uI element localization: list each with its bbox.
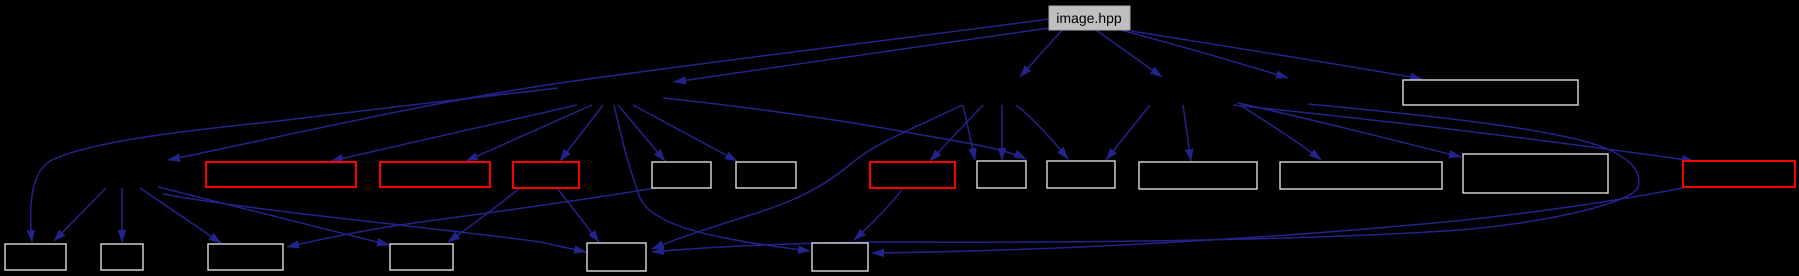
edge C->W4 <box>1016 105 1068 159</box>
edge D->W7 <box>1238 103 1461 157</box>
node W5 <box>1139 162 1257 189</box>
node W1 <box>652 162 711 188</box>
edge D->W6 <box>1240 105 1321 160</box>
edge C->W3 vertical <box>1001 105 1003 160</box>
edge D->W4 <box>1106 105 1150 160</box>
edge A->W3 (long right line) <box>663 98 1026 159</box>
edge B->B3 <box>140 188 221 243</box>
node B5 <box>587 243 646 271</box>
edge B->B4 <box>158 187 389 245</box>
edge image.hpp->E (hidden) <box>1121 30 1288 78</box>
edge W1->B3 <box>287 188 655 247</box>
edge A->B6 (vertical curve) <box>614 105 810 251</box>
node R4 (red) <box>870 162 955 188</box>
node B4 <box>390 244 453 270</box>
node R3 (red) <box>513 162 579 188</box>
edge image.hpp->W8 <box>1131 31 1422 79</box>
edge C->R4 <box>930 105 983 161</box>
edge A->R2 <box>466 105 592 161</box>
node B1 <box>5 244 66 270</box>
edge A->W2 <box>633 105 737 161</box>
edge image.hpp->A (hidden hub center) <box>674 28 1049 82</box>
edge R5->B6 (bottom sweep) <box>872 188 1683 253</box>
node W7 (tall) <box>1463 154 1608 193</box>
edge C->W3 left <box>963 105 975 160</box>
edge R3->B4 <box>448 188 520 242</box>
node W4 <box>1047 161 1115 188</box>
edge A->W1 <box>618 105 665 161</box>
node R2 (red) <box>380 162 490 187</box>
edge R4->B6 <box>854 188 903 240</box>
node B3 <box>208 244 283 270</box>
node W3 <box>977 161 1026 188</box>
edge A->R1 <box>331 105 577 161</box>
edge image.hpp->B (hidden hub left) <box>168 19 1049 160</box>
edge E->B5 (big right bend) <box>652 104 1639 252</box>
edge D->W5 <box>1183 105 1191 161</box>
edge A->R3 <box>560 105 603 161</box>
node R1 (red) <box>206 162 356 187</box>
node B2 <box>101 244 143 270</box>
node image.hpp (root) <box>1049 6 1130 30</box>
edge A->B1 (long left curve) <box>31 88 558 242</box>
node W2 <box>736 162 796 188</box>
edge B->B1 <box>54 188 106 241</box>
edge image.hpp->D <box>1096 30 1162 77</box>
edge D->R5 <box>1233 105 1694 161</box>
node W6 <box>1280 162 1442 189</box>
edge B->B2 <box>121 188 123 242</box>
edge B->B5 (left side entry) <box>163 194 586 252</box>
edge R3->B5 <box>557 188 599 242</box>
node W8 (top right) <box>1403 80 1578 105</box>
edge image.hpp->C <box>1020 30 1062 77</box>
node R5 (red right) <box>1683 161 1795 187</box>
edge C->B5 (S-curve) <box>652 105 962 249</box>
node B6 <box>812 243 868 271</box>
